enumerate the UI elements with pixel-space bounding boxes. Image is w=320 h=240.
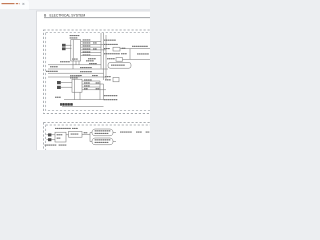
ground bus wire	[64, 99, 104, 101]
wire mid2	[48, 68, 108, 70]
net row3	[104, 48, 126, 49]
svg-text:ELECTRICAL SYSTEM: ELECTRICAL SYSTEM	[50, 13, 86, 17]
lower net row2	[104, 99, 118, 100]
U1 pin2 label	[83, 42, 98, 43]
wire P2b-U2	[61, 86, 72, 88]
connector P2a	[57, 81, 61, 84]
bus drop	[89, 133, 91, 142]
RL1 caption row1	[95, 130, 111, 131]
U2 pin1 label	[84, 79, 92, 80]
riser below U2 b	[103, 84, 105, 100]
connector P1	[62, 44, 66, 47]
schematic sheet 1 outer frame	[44, 30, 153, 114]
wire U1 pin1	[81, 41, 101, 43]
cond fan wire label	[137, 53, 149, 54]
resistor R1	[113, 77, 119, 81]
connector P3b	[48, 138, 51, 141]
vertical link right	[129, 49, 131, 60]
stub to RL2	[90, 141, 92, 143]
U2 pin3 label	[84, 85, 90, 86]
U1 pin5 label	[83, 51, 91, 52]
thermo row1	[105, 76, 111, 77]
U1 pin1 label	[83, 39, 91, 40]
net row5 label	[107, 58, 115, 59]
U2 ground drop b	[79, 92, 81, 99]
browser top strip	[0, 0, 150, 10]
connector P2b	[57, 86, 61, 89]
left row3 label	[46, 71, 58, 72]
condenser fan motor U3	[108, 63, 131, 69]
wire cond fan	[123, 58, 151, 60]
U2 inner rail	[73, 79, 75, 92]
wire M1 out	[82, 133, 90, 135]
battery wire label	[132, 46, 148, 47]
wire P3a-S1	[51, 134, 55, 136]
left row2 label	[50, 66, 58, 67]
wire U2 pin2	[82, 83, 104, 85]
wire U2 pin3	[82, 86, 100, 88]
schematic sheet 2 inner frame	[46, 125, 153, 155]
ground bus label	[55, 97, 61, 98]
wire mid1 label	[89, 63, 97, 64]
wire U2 pin1	[82, 80, 100, 82]
tab close x	[23, 3, 25, 5]
app background	[0, 0, 150, 150]
bus riser B	[103, 33, 105, 80]
wire U1 pin4	[81, 49, 106, 51]
U1 bottom designator	[72, 58, 96, 61]
M1 wire label	[84, 132, 88, 133]
U2 label	[70, 75, 80, 78]
U1 pin3 label	[83, 45, 91, 46]
wire RL2 out	[113, 141, 116, 143]
wire P2a-U2	[61, 82, 72, 84]
U2 pin2 label	[84, 82, 100, 83]
relay K1	[113, 47, 120, 51]
tab title (orange)	[2, 3, 15, 4]
wire RL1 out	[113, 132, 116, 134]
wire U1 pin2	[81, 43, 104, 45]
wire mid2 label	[80, 67, 92, 68]
U2 pin4 label	[84, 88, 100, 89]
blower switch S1	[55, 132, 66, 142]
wire S1-M1	[66, 134, 69, 136]
net row1	[104, 40, 116, 41]
header rule	[44, 16, 150, 19]
connector P3a	[48, 133, 51, 136]
wire P1-U1 b	[66, 47, 72, 49]
active tab	[0, 0, 29, 10]
U2 ground drop a	[73, 92, 75, 99]
bottom note	[45, 145, 67, 146]
S1 caption row2	[57, 138, 61, 139]
U1 pin4 label	[83, 48, 98, 49]
schematic sheet 2 outer frame	[44, 123, 153, 155]
wire mid4 label	[76, 75, 98, 76]
document page	[37, 11, 151, 151]
bus riser A	[100, 33, 102, 69]
lower net row1	[104, 95, 118, 96]
schematic sheet 1 inner frame	[46, 32, 153, 110]
blower relay RL2	[92, 138, 113, 145]
right caption	[120, 132, 150, 133]
wire mid4	[48, 76, 106, 78]
S1 caption row1	[57, 134, 63, 135]
earth label	[60, 61, 70, 62]
wire battery feed	[120, 48, 150, 50]
U1 riser c	[78, 61, 80, 65]
sheet2 title	[55, 128, 78, 129]
wire U1 pin6	[81, 55, 101, 57]
bus riser C	[105, 35, 107, 80]
wire U1 pin5	[81, 52, 101, 54]
U3 label	[111, 65, 125, 66]
amplifier U2	[72, 79, 82, 92]
net row4	[104, 53, 127, 54]
fuse box U1 label	[70, 35, 80, 39]
ECU No.2 wire	[62, 106, 104, 108]
U1 riser b	[75, 61, 77, 65]
fuse box U1	[71, 40, 81, 61]
U1 riser a	[72, 61, 74, 69]
wire mid3 label	[80, 71, 92, 72]
stub to RL1	[90, 132, 92, 134]
RL2 caption row1	[95, 139, 111, 140]
M1 caption	[71, 134, 79, 135]
RL1 caption row2	[95, 133, 109, 134]
wire mid1	[48, 64, 101, 66]
wire P3b-S1	[51, 139, 55, 141]
motor M1	[69, 131, 83, 137]
relay K2	[116, 58, 123, 62]
blower relay RL1	[92, 129, 113, 136]
U1 pin6 label	[83, 54, 91, 55]
wire mid3	[48, 72, 104, 74]
net row2	[104, 44, 118, 45]
RL2 caption row2	[95, 142, 109, 143]
wire U1 pin3	[81, 46, 101, 48]
riser below U2 a	[99, 81, 101, 100]
U1 inner pin rail	[72, 40, 74, 61]
wire P1-U1 a	[66, 44, 72, 46]
thermo row2	[105, 79, 111, 80]
ECU No.2 caption	[60, 103, 73, 105]
wire U2 pin4	[82, 89, 106, 91]
